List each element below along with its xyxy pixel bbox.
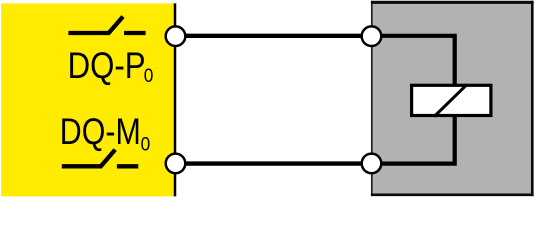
relay coil K1	[412, 85, 491, 115]
load device (gray box)	[372, 2, 533, 195]
module right edge line	[174, 3, 177, 196]
relay coil diagonal	[434, 85, 467, 117]
terminal DQ-M0	[166, 154, 186, 174]
wire DQ-P0 to load	[175, 34, 372, 38]
switch contact DQ-M0	[62, 150, 115, 167]
load device border bottom	[371, 194, 534, 197]
load device border left	[371, 1, 373, 196]
wire load internal top	[372, 36, 455, 90]
terminal load top	[362, 26, 382, 46]
svg-text:DQ-M: DQ-M	[60, 111, 141, 152]
terminal DQ-P0	[166, 26, 186, 46]
wire load internal bottom	[372, 110, 455, 164]
switch contact DQ-P0 fixed throw	[124, 31, 146, 35]
svg-text:0: 0	[141, 133, 151, 155]
switch contact DQ-P0	[68, 17, 123, 33]
F-DQ module (yellow block)	[1, 3, 175, 196]
wire DQ-M0 to load	[175, 161, 372, 165]
load device border right	[531, 1, 534, 196]
switch contact DQ-M0 fixed throw	[117, 164, 138, 168]
svg-text:DQ-P: DQ-P	[68, 45, 146, 86]
load device border top	[371, 1, 534, 4]
terminal load bottom	[362, 154, 382, 174]
svg-text:0: 0	[144, 65, 154, 87]
